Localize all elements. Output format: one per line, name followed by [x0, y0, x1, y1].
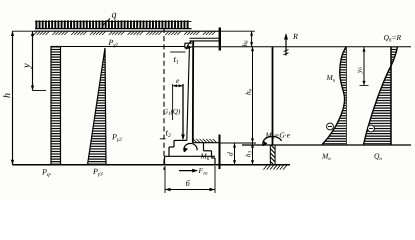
e dimension [172, 84, 174, 120]
load G1(Q) arrow [182, 84, 184, 139]
dashed axis line [163, 28, 165, 170]
idealized column [272, 47, 274, 146]
support base and ground hatch [265, 164, 286, 166]
svg-text:h: h [2, 93, 13, 98]
thick extension bar right of floor [219, 135, 221, 170]
pressure diagram P_gamma (triangle, horizontal hatch) [88, 48, 107, 165]
fixed support stub with hatch [270, 145, 275, 165]
dimension h_b (ground to top line) [251, 31, 253, 46]
basement wall: outer (right) face [192, 41, 194, 143]
svg-text:R: R [292, 32, 298, 41]
reaction R arrow [285, 36, 287, 56]
wall inner (left) face, tapered [187, 48, 190, 141]
floor beam (double line) [190, 37, 220, 39]
dimension h3 [252, 143, 254, 165]
svg-text:y: y [22, 63, 33, 69]
force F_go arrow [179, 170, 196, 172]
moment diagram M (axis) [345, 47, 347, 146]
minus sign circle (M diagram) [327, 123, 334, 130]
svg-text:d: d [226, 152, 235, 156]
minus sign circle (Q diagram) [368, 125, 375, 132]
footing outline (stepped) [165, 140, 216, 164]
main baseline [13, 164, 291, 166]
basement floor line with hatch (right of wall) [193, 142, 220, 144]
pressure diagram P_q (rectangle, horizontal hatch) [51, 47, 61, 165]
corbel step at wall top [185, 41, 191, 48]
dimension h (overall height, far left) [13, 31, 36, 165]
svg-text:Qб=R: Qб=R [384, 33, 402, 44]
moment M_b = G*e arc at column base [263, 136, 282, 145]
svg-text:Pq.: Pq. [41, 168, 52, 179]
moment arc M_b at footing [184, 143, 197, 152]
corbel reaction arrowhead [185, 45, 192, 50]
dimension в (footing width) [164, 166, 166, 193]
top chord line (P_gamma1 level / R line) [51, 46, 186, 48]
dimension h_v (top line to floor) [252, 47, 254, 144]
svg-text:q: q [112, 10, 117, 21]
shear diagram Q [364, 47, 398, 145]
t1 dimension tick and label [170, 51, 185, 53]
dimension y_b [363, 47, 365, 86]
dimension d [234, 143, 236, 165]
ground level extension to h_b dim [220, 30, 256, 32]
floor line (right schematic) [242, 144, 411, 146]
beam end support bar [219, 28, 221, 51]
ground line with hatching [34, 30, 220, 32]
t2 tick and label [160, 138, 166, 140]
dimension y (left) [33, 31, 47, 91]
surcharge load q (tie band) [35, 21, 192, 28]
svg-text:б: б [186, 178, 191, 188]
moment diagram curve with hatch [322, 47, 346, 145]
floor level extension line for d dims [220, 142, 257, 144]
svg-text:Mб=G·e: Mб=G·e [265, 131, 291, 142]
